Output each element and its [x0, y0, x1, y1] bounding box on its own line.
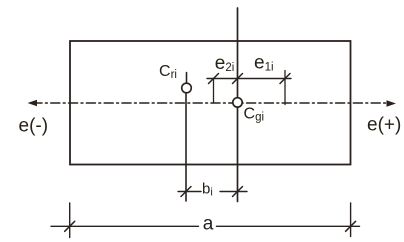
dimension line bi left segment	[178, 191, 201, 193]
svg-text:e(+): e(+)	[367, 115, 401, 136]
tick at center axis	[233, 74, 243, 84]
left arrowhead e(-)	[28, 100, 38, 107]
section outline rectangle	[70, 41, 351, 165]
extension line at left of e2i	[213, 79, 215, 104]
dimension line e2i/e1i	[207, 78, 291, 80]
tick at e2i left	[209, 74, 219, 84]
svg-text:a: a	[203, 214, 214, 235]
tick at bi right	[233, 187, 243, 197]
tick at e1i right	[280, 74, 290, 84]
svg-text:e(-): e(-)	[19, 116, 49, 137]
vertical axis line through Cgi	[237, 8, 239, 202]
svg-text:bi: bi	[202, 181, 213, 199]
Cgi circle marker	[233, 98, 242, 107]
extension line at a left	[69, 203, 71, 238]
extension line at right of e1i	[284, 71, 286, 105]
extension line at a right	[350, 203, 352, 237]
tick at a left	[65, 221, 75, 231]
horizontal dash-dot axis	[33, 102, 391, 104]
dimension line bi right segment	[220, 191, 247, 193]
svg-text:Cgi: Cgi	[244, 105, 265, 123]
Cri stub line above circle	[186, 73, 188, 84]
svg-text:Cri: Cri	[159, 63, 177, 81]
svg-text:e1i: e1i	[254, 53, 274, 74]
tick at bi left	[181, 187, 191, 197]
right arrowhead e(+)	[387, 100, 397, 107]
Cri circle marker	[182, 83, 192, 93]
tick at a right	[346, 221, 356, 231]
dimension line a right segment	[217, 225, 360, 227]
svg-text:e2i: e2i	[215, 53, 235, 74]
dimension line a left segment	[51, 225, 199, 227]
Cri leader line down	[185, 93, 187, 201]
